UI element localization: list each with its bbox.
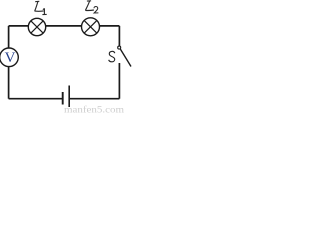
battery cell [63,86,69,108]
wire left vertical [8,26,10,99]
svg-text:V: V [5,50,16,66]
lamp L1 [28,18,45,35]
svg-text:manfen5.com: manfen5.com [64,105,124,115]
blade [120,49,131,67]
label L2 [85,1,94,11]
short plate (negative) [62,92,64,105]
wire bottom left segment [9,98,62,100]
long plate (positive) [68,86,70,108]
wire right lower (switch to bottom corner) [118,63,120,99]
background [0,0,133,114]
wire bottom right segment [70,98,120,100]
switch S [118,46,131,66]
label S [109,51,115,61]
voltmeter V [0,48,18,67]
pivot [118,46,121,49]
wire top (left corner to right corner) [9,25,120,27]
lamp L2 [82,18,100,36]
wire right upper (to switch pivot) [118,26,120,46]
label L1 [35,1,44,11]
